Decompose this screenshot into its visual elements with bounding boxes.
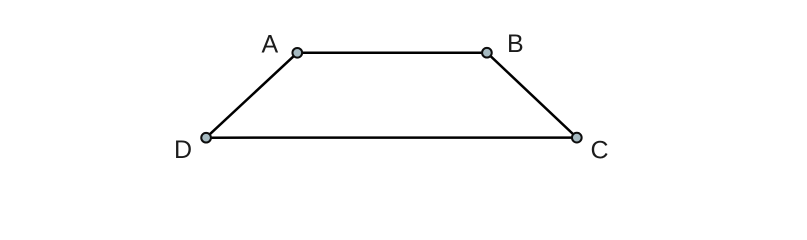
wire side AB [297,51,487,54]
wire side BC [487,53,577,138]
wire side DC [206,136,577,139]
node C [572,133,582,143]
wire side DA [206,53,297,138]
svg-text:D: D [174,136,192,164]
node B [482,48,492,58]
node D [201,133,211,143]
svg-text:A: A [262,31,279,59]
svg-text:C: C [591,137,609,165]
node A [292,48,302,58]
svg-text:B: B [507,30,524,58]
